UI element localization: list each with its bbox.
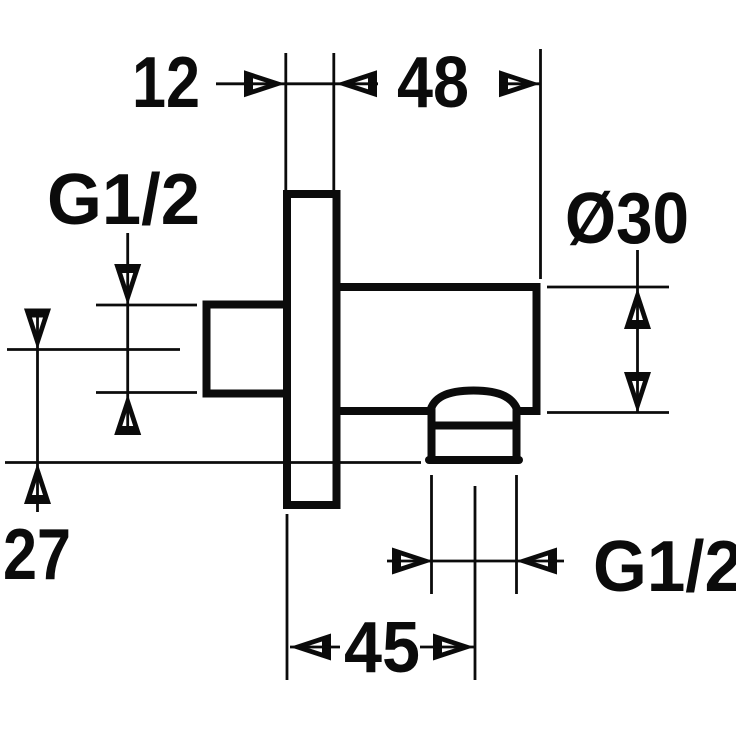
svg-text:G1/2: G1/2 [47,160,200,240]
svg-text:27: 27 [3,515,71,595]
svg-text:45: 45 [344,608,420,688]
svg-text:48: 48 [397,43,469,123]
svg-text:G1/2: G1/2 [593,527,736,607]
svg-text:Ø30: Ø30 [565,179,689,259]
svg-text:12: 12 [132,43,200,123]
